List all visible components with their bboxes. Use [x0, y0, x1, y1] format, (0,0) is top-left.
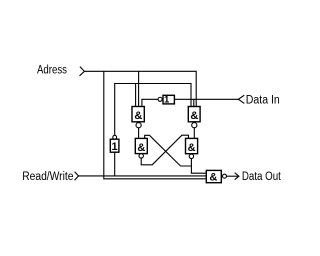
wire Read/Write to inverter U6 input — [114, 152, 116, 176]
wire Adress bus (node ADR) — [84, 71, 196, 106]
output arrowhead Data Out — [235, 173, 239, 180]
wire U5 output to Data Out arrow — [227, 175, 239, 177]
wire Data In line (node DIN) — [175, 98, 239, 100]
and-gate U5 (read output NAND) — [206, 170, 226, 183]
wire write-enable branch to gate U1 — [135, 84, 137, 107]
and-gate U3 (latch left NAND) — [135, 138, 147, 158]
svg-text:&: & — [209, 172, 217, 184]
wire U4 output down to junction — [191, 159, 206, 174]
wire Read/Write line (node RW) — [79, 175, 207, 177]
wire Adress to gate U2 (branch at x138.6) — [138, 71, 140, 106]
svg-text:Data Out: Data Out — [242, 171, 282, 183]
svg-text:Read/Write: Read/Write — [22, 171, 73, 183]
and-gate U1 (write 0 gate) — [132, 107, 144, 128]
wire Adress to output gate U5 (runs under Read/Write line) — [104, 71, 207, 179]
wire write-enable line from inverter U6 output to gates U1 and U2 — [115, 84, 191, 136]
svg-text:Data In: Data In — [246, 95, 280, 107]
and-gate U4 (latch right NAND) — [186, 138, 198, 158]
wire inverted Data In from U7 bubble to gate U1 — [142, 99, 158, 106]
svg-text:&: & — [134, 110, 142, 122]
svg-text:&: & — [190, 110, 198, 122]
svg-text:1: 1 — [164, 95, 170, 106]
wire U3 output cross-coupled to U4 input (diagonal D1) — [141, 135, 188, 165]
wire U4 output cross-coupled to U3 input (diagonal D2) — [145, 135, 192, 166]
svg-text:&: & — [188, 142, 196, 154]
inverter U6 (Read/Write inverter) — [110, 135, 119, 153]
input terminal chevron Data In — [238, 95, 244, 103]
and-gate U2 (write 1 gate) — [188, 107, 200, 128]
svg-text:&: & — [137, 142, 145, 154]
inverter U7 (Data In inverter) — [158, 95, 174, 106]
wire U1 output to latch gate U3 — [138, 128, 140, 139]
wire U2 output to latch gate U4 — [193, 128, 195, 139]
wire Data In branch down to gate U2 — [193, 99, 195, 106]
input terminal chevron Read/Write — [75, 172, 79, 181]
svg-text:Adress: Adress — [37, 65, 67, 77]
input terminal chevron Adress — [80, 67, 85, 76]
svg-text:1: 1 — [112, 141, 118, 153]
